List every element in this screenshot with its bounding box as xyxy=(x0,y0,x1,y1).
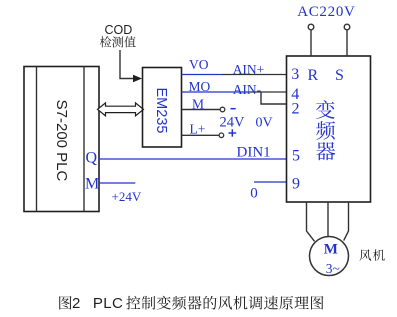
label AIN- xyxy=(233,82,262,97)
wire L1 to R xyxy=(310,30,312,56)
svg-text:AIN+: AIN+ xyxy=(233,62,265,77)
label AIN+ xyxy=(233,62,265,77)
pin 5 xyxy=(292,147,300,164)
wire motor lead W xyxy=(344,202,349,241)
pin 2 xyxy=(292,100,300,117)
svg-text:DIN1: DIN1 xyxy=(237,145,271,161)
pin M label on PLC xyxy=(85,176,99,193)
plus sign xyxy=(229,129,237,136)
label 风机 (fan) xyxy=(359,249,384,261)
AC terminal circle L2 xyxy=(344,24,350,30)
svg-text:PLC: PLC xyxy=(93,295,123,312)
wire motor lead U xyxy=(307,202,315,241)
pin 4 xyxy=(291,86,299,103)
terminal S label xyxy=(335,67,344,84)
svg-text:2: 2 xyxy=(72,295,80,312)
label VO xyxy=(189,57,209,72)
PLC U1 S7-200 box xyxy=(24,67,99,212)
svg-text:+24V: +24V xyxy=(112,189,142,204)
bidirectional bus arrow between PLC and EM235 xyxy=(98,103,144,116)
wire MO to AIN- (pin 4) xyxy=(182,91,288,93)
svg-text:2: 2 xyxy=(292,100,300,117)
svg-text:VO: VO xyxy=(189,57,209,72)
minus sign xyxy=(231,108,236,110)
pin 3 xyxy=(291,66,299,83)
wire M terminal stub with open terminal xyxy=(182,107,225,112)
svg-text:Q: Q xyxy=(86,149,98,166)
arrow from COD label into EM235 xyxy=(120,50,142,82)
wire VO to AIN+ (pin 3) xyxy=(182,74,288,76)
svg-text:0V: 0V xyxy=(256,115,273,130)
terminal R label xyxy=(308,67,319,84)
label DIN1 xyxy=(237,145,271,161)
wire L2 to S xyxy=(346,30,348,56)
svg-text:L+: L+ xyxy=(190,122,206,137)
svg-text:S7-200 PLC: S7-200 PLC xyxy=(53,100,70,182)
svg-text:24V: 24V xyxy=(220,114,246,130)
analog module U2 EM235 box xyxy=(143,68,182,148)
caption 图2 PLC控制变频器的风机调速原理图 xyxy=(59,295,323,312)
svg-text:MO: MO xyxy=(189,79,211,94)
label +24V xyxy=(112,189,142,204)
label MO xyxy=(189,79,211,94)
wire motor lead V xyxy=(327,202,329,237)
wire Q to DIN1 (pin 5) xyxy=(99,158,287,160)
svg-text:M: M xyxy=(324,241,338,257)
AC terminal circle L1 xyxy=(308,24,314,30)
svg-text:3~: 3~ xyxy=(326,261,340,276)
svg-text:0: 0 xyxy=(250,186,257,202)
pin Q label on PLC xyxy=(86,149,98,166)
svg-text:R: R xyxy=(308,67,319,84)
svg-text:9: 9 xyxy=(292,176,300,193)
label M (EM235) xyxy=(192,97,204,112)
wire 0 stub into pin 9 xyxy=(254,181,287,183)
label 变频器 vertical xyxy=(316,100,335,160)
label 0V xyxy=(256,115,273,130)
pin 9 xyxy=(292,176,300,193)
inverter U3 (VFD) box xyxy=(287,56,371,202)
svg-text:AIN-: AIN- xyxy=(233,82,262,97)
label L+ xyxy=(190,122,206,137)
label 24V xyxy=(220,114,246,130)
svg-text:S: S xyxy=(335,67,344,84)
svg-text:3: 3 xyxy=(291,66,299,83)
label 0 xyxy=(250,186,257,202)
svg-text:COD: COD xyxy=(105,23,133,37)
motor M1 circle 3-phase xyxy=(310,237,349,276)
svg-text:5: 5 xyxy=(292,147,300,164)
svg-text:AC220V: AC220V xyxy=(297,4,355,20)
wire L+ terminal stub with open terminal xyxy=(182,133,224,138)
label COD detection value xyxy=(100,23,136,47)
svg-text:EM235: EM235 xyxy=(153,88,169,134)
wire jumper pin4 to pin2 xyxy=(261,92,287,104)
svg-text:M: M xyxy=(192,97,204,112)
wire +24V stub from PLC M xyxy=(99,182,135,184)
label AC220V xyxy=(297,4,355,20)
svg-text:M: M xyxy=(85,176,99,193)
